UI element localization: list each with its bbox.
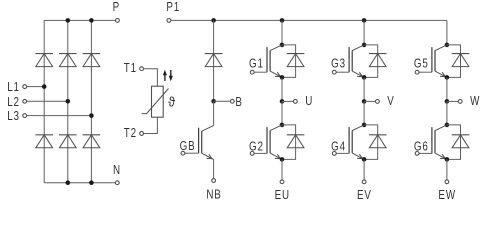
wire emitter G1 to node U [281, 77, 283, 101]
wire node U to terminal [282, 100, 293, 102]
svg-text:NB: NB [206, 189, 221, 202]
terminal B [230, 96, 242, 109]
wire node W to collector G6 [446, 101, 448, 125]
thermistor R1 body [152, 86, 164, 117]
wire brake leg upper [213, 20, 215, 101]
wire emitter EW [446, 159, 448, 180]
junction collector G3 [362, 43, 367, 48]
svg-text:P1: P1 [166, 1, 180, 14]
junction emitter G3 [362, 75, 367, 80]
transistor Q1 (G1 IGBT) [267, 45, 282, 78]
transistor Q3 (G3 IGBT) [349, 45, 364, 78]
terminal G5 [414, 58, 429, 74]
svg-text:U: U [305, 95, 313, 108]
junction collector G1 [280, 43, 285, 48]
junction collector G4 [362, 123, 367, 128]
wire node B to terminal [214, 100, 231, 102]
svg-text:L1: L1 [7, 81, 20, 94]
terminal GB [180, 140, 196, 155]
diode D3 (L3 upper) [83, 54, 101, 67]
temperature arrow down [169, 70, 173, 81]
wire gate G1 [254, 71, 267, 73]
junction node W [445, 99, 450, 104]
diode D9 (antiparallel G2) [287, 135, 305, 148]
wire L1 [27, 86, 45, 88]
svg-text:G5: G5 [414, 58, 429, 71]
wire gate G3 [336, 71, 349, 73]
junction emitter G1 [280, 75, 285, 80]
svg-text:GB: GB [180, 140, 196, 153]
svg-text:G6: G6 [414, 141, 429, 154]
junction emitter G6 [445, 157, 450, 162]
svg-text:L2: L2 [7, 96, 20, 109]
junction node L3 [89, 113, 94, 118]
label theta [168, 94, 176, 110]
junction collector G5 [445, 43, 450, 48]
junction emitter G5 [445, 75, 450, 80]
wire P1 rail [171, 19, 447, 21]
junction top rail col2 [66, 18, 71, 23]
junction bottom rail col2 [66, 180, 71, 185]
svg-text:G3: G3 [331, 58, 346, 71]
junction node L2 [66, 99, 71, 104]
svg-text:L3: L3 [7, 110, 20, 123]
wire collector leg W [446, 20, 448, 45]
terminal P1 [166, 1, 180, 22]
wire emitter G3 to node V [363, 77, 365, 101]
wire freewheel branch G3 [364, 45, 378, 78]
wire emitter G5 to node W [446, 77, 448, 101]
diode D11 (antiparallel G4) [369, 135, 387, 148]
junction collector G6 [445, 123, 450, 128]
terminal EW [438, 180, 456, 202]
terminal T2 [124, 127, 144, 140]
junction node B [211, 99, 216, 104]
wire rectifier bottom rail to N [44, 182, 115, 184]
wire emitter EU [281, 159, 283, 180]
svg-text:EU: EU [275, 189, 290, 202]
wire rectifier top rail to P [44, 19, 115, 21]
diode D4 (L1 lower) [35, 135, 53, 148]
terminal N [113, 164, 121, 185]
terminal W [458, 95, 480, 108]
wire L3 [27, 115, 92, 117]
diode D1 (L1 upper) [35, 54, 53, 67]
junction node V [362, 99, 367, 104]
wire brake emitter [213, 160, 215, 179]
terminal G6 [414, 141, 429, 156]
svg-text:G2: G2 [249, 141, 264, 154]
wire gate GB [185, 152, 199, 154]
svg-text:B: B [235, 96, 242, 109]
wire freewheel branch G5 [447, 45, 461, 78]
wire freewheel branch G1 [282, 45, 296, 78]
wire freewheel branch G6 [447, 125, 461, 159]
terminal G3 [331, 58, 346, 74]
svg-text:W: W [470, 95, 480, 108]
terminal EV [357, 180, 372, 202]
svg-text:G4: G4 [331, 141, 346, 154]
wire node W to terminal [447, 100, 458, 102]
wire gate G4 [336, 152, 349, 154]
svg-text:G1: G1 [249, 58, 264, 71]
svg-text:P: P [113, 1, 120, 14]
transistor Q2 (G2 IGBT) [267, 125, 282, 159]
wire node V to collector G4 [363, 101, 365, 125]
terminal U [293, 95, 313, 108]
junction emitter G4 [362, 157, 367, 162]
junction bottom rail col3 [89, 180, 94, 185]
wire freewheel branch G2 [282, 125, 296, 159]
wire thermistor to T2 [144, 117, 158, 133]
diode D8 (antiparallel G1) [287, 54, 305, 67]
junction node U [280, 99, 285, 104]
junction emitter G2 [280, 157, 285, 162]
terminal P [113, 1, 120, 22]
diode D6 (L3 lower) [83, 135, 101, 148]
transistor Q7 (brake IGBT) [199, 126, 214, 160]
svg-text:T1: T1 [124, 62, 137, 75]
transistor Q6 (G6 IGBT) [432, 125, 447, 159]
wire gate G5 [419, 71, 432, 73]
thermistor R1 diagonal [142, 89, 169, 114]
wire T1 to thermistor [144, 69, 158, 87]
wire freewheel branch G4 [364, 125, 378, 159]
wire rectifier column 1 [43, 20, 45, 182]
svg-text:EV: EV [357, 189, 372, 202]
wire collector leg V [363, 20, 365, 45]
terminal G4 [331, 141, 346, 156]
terminal G2 [249, 141, 264, 156]
junction top rail col3 [89, 18, 94, 23]
wire node U to collector G2 [281, 101, 283, 125]
wire rectifier column 3 [90, 20, 92, 182]
wire collector leg U [281, 20, 283, 45]
terminal L2 [7, 96, 26, 109]
terminal EU [275, 180, 290, 202]
junction P1 rail leg U [280, 18, 285, 23]
wire gate G6 [419, 152, 432, 154]
wire brake collector [213, 101, 215, 125]
svg-text:V: V [387, 95, 394, 108]
junction node L1 [42, 84, 47, 89]
terminal L3 [7, 110, 26, 123]
svg-text:EW: EW [438, 189, 456, 202]
terminal G1 [249, 58, 264, 74]
transistor Q4 (G4 IGBT) [349, 125, 364, 159]
temperature arrow up [163, 70, 167, 81]
diode D5 (L2 lower) [59, 135, 77, 148]
wire emitter EV [363, 159, 365, 180]
wire node V to terminal [364, 100, 375, 102]
svg-text:T2: T2 [124, 127, 137, 140]
diode D12 (antiparallel G5) [452, 54, 470, 67]
junction P1 rail brake leg [211, 18, 216, 23]
terminal V [376, 95, 395, 108]
wire gate G2 [254, 152, 267, 154]
svg-text:N: N [113, 164, 121, 177]
transistor Q5 (G5 IGBT) [432, 45, 447, 78]
svg-text:ϑ: ϑ [168, 94, 176, 110]
junction P1 rail leg V [362, 18, 367, 23]
diode D7 (brake) [205, 54, 223, 67]
diode D10 (antiparallel G3) [369, 54, 387, 67]
junction collector G2 [280, 123, 285, 128]
terminal NB [206, 179, 221, 202]
terminal L1 [7, 81, 26, 94]
terminal T1 [124, 62, 144, 75]
diode D13 (antiparallel G6) [452, 135, 470, 148]
wire rectifier column 2 [67, 20, 69, 182]
wire L2 [27, 100, 68, 102]
diode D2 (L2 upper) [59, 54, 77, 67]
